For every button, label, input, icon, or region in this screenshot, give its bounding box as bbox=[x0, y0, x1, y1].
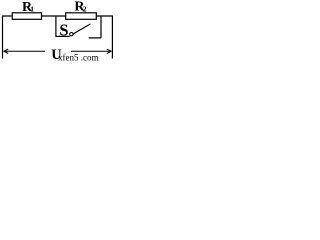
switch S pivot bbox=[70, 33, 73, 36]
svg-text:S: S bbox=[59, 21, 68, 40]
resistor R1 bbox=[12, 13, 41, 19]
wire switch right stub bbox=[89, 16, 101, 38]
U dimension right arrow bbox=[71, 50, 111, 52]
switch S blade bbox=[73, 24, 90, 34]
wire switch left stub bbox=[55, 35, 69, 37]
node A junction left of switch branch bbox=[55, 16, 57, 36]
resistor R2 bbox=[66, 13, 97, 19]
svg-text:xfen5 .com: xfen5 .com bbox=[58, 53, 99, 62]
svg-text:1: 1 bbox=[30, 5, 34, 14]
svg-text:2: 2 bbox=[83, 5, 87, 14]
U dimension left arrow bbox=[4, 50, 45, 52]
wire top bus bbox=[3, 15, 113, 17]
wire left rail bbox=[2, 16, 4, 59]
wire right rail bbox=[111, 16, 113, 59]
